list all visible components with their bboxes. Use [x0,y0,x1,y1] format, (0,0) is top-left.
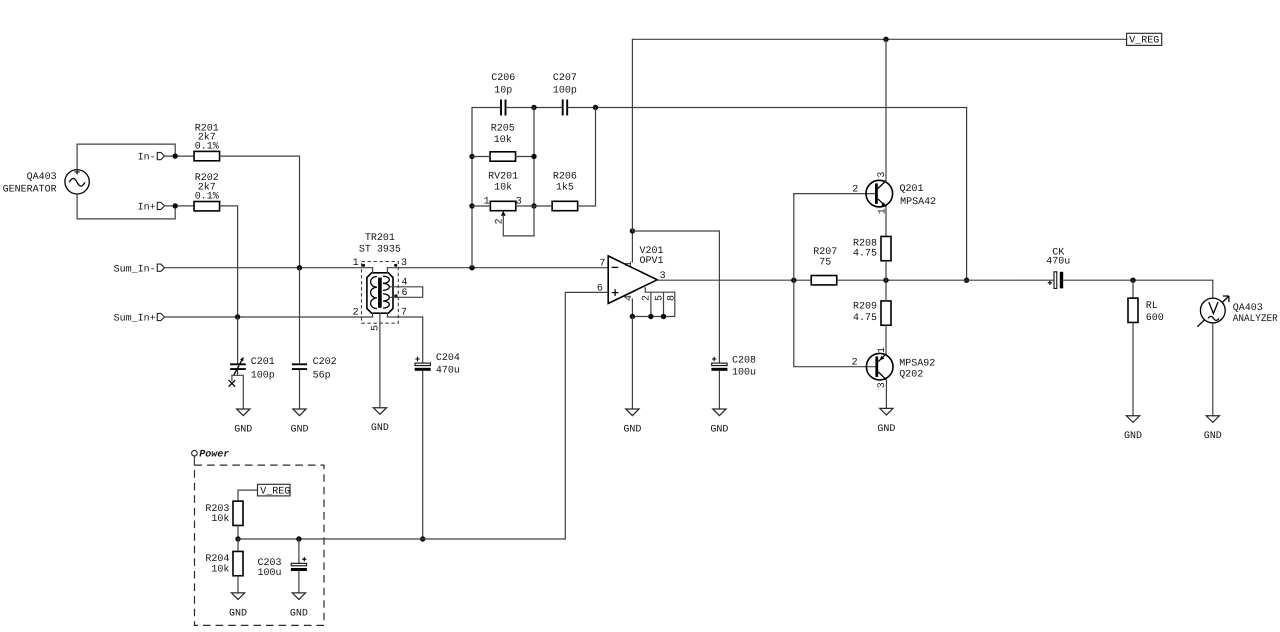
svg-text:C204: C204 [436,353,460,364]
svg-text:1: 1 [624,261,635,267]
wire generator top to In- [77,144,175,170]
svg-text:470u: 470u [436,365,460,376]
V201 ground rail [632,316,674,318]
svg-text:100u: 100u [732,368,756,379]
capacitor C208 100u [711,355,756,378]
junction R208/R209 node [883,278,888,283]
capacitor C207 100p [553,73,577,115]
svg-text:OPV1: OPV1 [640,256,664,267]
wire Q201 collector to V_REG [885,39,887,180]
svg-text:C207: C207 [553,73,577,84]
power section dashed box [195,465,325,625]
svg-text:GND: GND [290,424,308,435]
junction C204 / power line [420,536,425,541]
svg-text:GND: GND [371,423,389,434]
ground TR201 pin5 [371,408,389,434]
wire R206 to top line [534,205,552,207]
junction R205 right [531,154,536,159]
wire top line C206-C207 [472,107,500,109]
svg-text:GENERATOR: GENERATOR [3,185,57,196]
svg-text:R206: R206 [553,171,577,182]
resistor R208 4.75 [853,236,891,260]
capacitor C204 470u [415,353,460,377]
svg-text:2: 2 [852,184,858,195]
wire R204 to ground [237,576,239,593]
junction RL top [1130,278,1135,283]
wire C204 to power junction [422,371,424,539]
svg-text:Q202: Q202 [899,370,923,381]
wire C202 to ground [299,370,301,409]
resistor R207 75 [811,247,837,285]
svg-text:GND: GND [1124,431,1142,442]
svg-text:GND: GND [234,424,252,435]
junction C206/R205 vertical [531,105,536,110]
svg-text:MPSA92: MPSA92 [899,358,935,369]
svg-text:QA403: QA403 [27,172,57,183]
svg-text:C202: C202 [313,357,337,368]
resistor R206 1k5 [552,171,578,210]
capacitor C206 10p [491,73,515,115]
svg-text:In+: In+ [138,203,156,214]
svg-text:1: 1 [877,208,888,214]
svg-text:MPSA42: MPSA42 [900,197,936,208]
svg-text:Power: Power [199,449,229,460]
wire R201 to Sum_In- line [220,156,300,268]
svg-text:Q201: Q201 [900,184,924,195]
svg-text:C201: C201 [251,357,275,368]
ground analyzer [1204,416,1222,442]
net label V_REG (top right) [1127,33,1162,46]
wire Q202 base lead [794,366,875,368]
wire RL to ground [1132,323,1134,416]
wire V_REG rail [632,38,1126,40]
wire R202 to Sum_In+ line [220,206,238,317]
junction RV201 pin3 node [531,203,536,208]
wire V_REG to R203 [238,490,258,501]
resistor R205 10k [490,123,516,161]
junction In- node [173,153,178,158]
RV201 wiper arrow [501,211,506,216]
svg-text:C208: C208 [732,355,756,366]
wire TR201 pin7 down to C204 [387,317,422,363]
svg-text:R205: R205 [491,123,515,134]
svg-text:RL: RL [1146,301,1158,312]
junction pin2 rail [648,314,653,319]
ground RL [1124,416,1142,442]
junction RV201 pin1 left [469,203,474,208]
wire Sum_In- branch down to C202 [299,268,301,364]
voltmeter QA403 ANALYZER [1197,296,1277,327]
svg-text:TR201: TR201 [365,233,395,244]
wire TR201 pin3 to op-amp inverting input [387,267,608,269]
wire op-amp ground [631,317,633,410]
resistor R209 4.75 [853,301,891,325]
junction Sum_In+ / C201 branch [235,314,240,319]
wire top line C207 to right vertical [568,107,967,109]
wire Q201 emitter to R208 [885,207,887,236]
svg-text:V_REG: V_REG [1129,36,1159,47]
svg-text:GND: GND [623,424,641,435]
svg-text:GND: GND [710,424,728,435]
net label V_REG (power) [258,484,291,497]
svg-text:8: 8 [667,295,678,301]
svg-text:10k: 10k [494,134,512,146]
transformer TR201 ST 3935 [353,233,408,331]
transistor Q201 MPSA42 (NPN) [852,172,936,215]
wire R205 leads [472,156,490,158]
transistor Q202 MPSA92 (PNP) [852,347,936,388]
svg-text:GND: GND [290,608,308,619]
svg-text:ANALYZER: ANALYZER [1233,314,1278,325]
wire TR201 pins 4-6 short [390,287,423,298]
svg-text:RV201: RV201 [488,171,518,182]
wire base drive vertical [793,194,795,367]
capacitor CK 470u [1046,248,1070,289]
hierarchical label Sum_In+ [114,313,165,324]
wire feedback right vertical to output [966,108,968,281]
junction C207/R206 vertical [593,105,598,110]
wire TR201 pin5 to ground [379,331,381,408]
svg-text:0.1%: 0.1% [195,191,219,202]
svg-text:ST 3935: ST 3935 [359,245,401,256]
V201 pin 4 stub to ground rail [631,299,633,317]
junction divider node [235,536,240,541]
svg-text:10k: 10k [211,563,229,575]
wire generator bottom to In+ [77,194,175,219]
svg-text:Sum_In-: Sum_In- [114,264,156,275]
wire power line to op-amp pin 6 [238,292,608,539]
svg-text:4.75: 4.75 [853,313,877,324]
wire R208 to output line [885,261,887,280]
wire CK to RL and analyzer [1063,279,1213,281]
wire feedback left vertical [471,108,473,268]
svg-text:2: 2 [495,218,506,224]
svg-text:C206: C206 [491,73,515,84]
junction feedback tap on pin3 line [469,265,474,270]
junction Sum_In- / C202 branch [297,265,302,270]
svg-text:2: 2 [852,357,858,368]
V201 pins 2 5 8 stubs [645,288,675,293]
sheet pin Power [192,449,230,465]
wire In+ to R202 [165,205,195,207]
ground R204 [229,593,247,619]
potentiometer RV201 10k [484,171,534,236]
junction pin5 rail [661,314,666,319]
wire C201 bottom tee [232,370,238,375]
wire C203 to ground [298,570,300,593]
wire divider to R204 [237,539,239,552]
wire Sum_In+ to TR201 pin 2 [165,316,373,318]
junction Q201 collector / V_REG rail [883,37,888,42]
wire pin1 node to C208 branch [632,231,719,363]
svg-text:10k: 10k [211,513,229,525]
ground C208 [710,409,728,435]
wire R209 to Q202 emitter [885,325,887,353]
svg-text:R208: R208 [853,238,877,249]
svg-text:4: 4 [624,295,635,301]
svg-text:GND: GND [1204,431,1222,442]
capacitor C203 100u [258,557,307,579]
wire Sum_In- to TR201 pin 1 [165,267,373,269]
svg-text:75: 75 [819,257,831,268]
junction V_REG / pin1 node [630,228,635,233]
svg-text:R209: R209 [853,302,877,313]
ground C202 [290,409,308,435]
wire In- to R201 [165,155,195,157]
wire analyzer top lead [1212,280,1214,297]
svg-text:1k5: 1k5 [556,181,574,193]
junction R205 left [469,154,474,159]
svg-text:10k: 10k [494,181,512,193]
junction pin4 rail [630,314,635,319]
ground Q202 [877,408,895,434]
svg-text:GND: GND [229,608,247,619]
svg-text:1: 1 [877,347,888,353]
no-connect cross C201 [229,380,236,387]
svg-text:100p: 100p [251,370,275,381]
wire Q201 base lead [794,193,875,195]
svg-text:5: 5 [370,325,381,331]
wire C203 top lead [298,539,300,563]
svg-text:56p: 56p [313,370,331,381]
wire analyzer to ground [1212,324,1214,416]
wire RV201 leads [472,205,490,207]
wire RL top lead [1132,280,1134,298]
V201 pin 1 stub [631,231,633,262]
resistor R204 10k [205,551,243,575]
svg-text:100p: 100p [553,86,577,97]
capacitor C201 100p (trimmer) [230,317,275,381]
ground C203 [290,593,308,619]
svg-text:QA403: QA403 [1233,303,1263,314]
junction C203 top [296,536,301,541]
TR201 pin stubs [372,268,374,273]
svg-text:In-: In- [138,153,156,164]
ground op-amp [623,409,641,435]
svg-text:470u: 470u [1046,257,1070,268]
junction In+ node [173,203,178,208]
generator G1 QA403 GENERATOR [3,169,90,195]
svg-text:GND: GND [877,424,895,435]
ground C201 [234,409,252,435]
wire op-amp output line [657,279,810,281]
svg-text:Sum_In+: Sum_In+ [114,314,156,325]
op-amp U1 V201 OPV1 [597,231,678,319]
svg-text:2: 2 [353,308,359,319]
wire Q202 collector to ground [885,380,887,409]
hierarchical label Sum_In- [114,264,165,275]
wire output line to R209 [885,280,887,301]
svg-text:7: 7 [599,258,605,269]
wire C208 to ground [718,371,720,409]
junction feedback / output line [964,278,969,283]
wire R203 to divider node [237,526,239,540]
capacitor C202 56p [292,357,337,382]
svg-text:0.1%: 0.1% [195,142,219,153]
resistor R202 2k7 0.1% [194,173,220,211]
resistor RL 600 [1128,298,1164,324]
resistor R201 2k7 0.1% [194,123,220,160]
svg-text:1: 1 [353,258,359,269]
resistor R203 10k [205,501,243,525]
hierarchical label In- [138,153,165,164]
svg-text:V_REG: V_REG [260,487,290,498]
TR201 polarity dots [362,264,365,267]
svg-text:R207: R207 [813,247,837,258]
svg-text:10p: 10p [494,86,512,97]
svg-text:4.75: 4.75 [853,249,877,260]
junction base drive node [791,278,796,283]
wire mid vertical x=534 [533,108,535,207]
svg-text:600: 600 [1146,313,1164,324]
hierarchical label In+ [138,202,165,213]
svg-text:100u: 100u [258,568,282,579]
